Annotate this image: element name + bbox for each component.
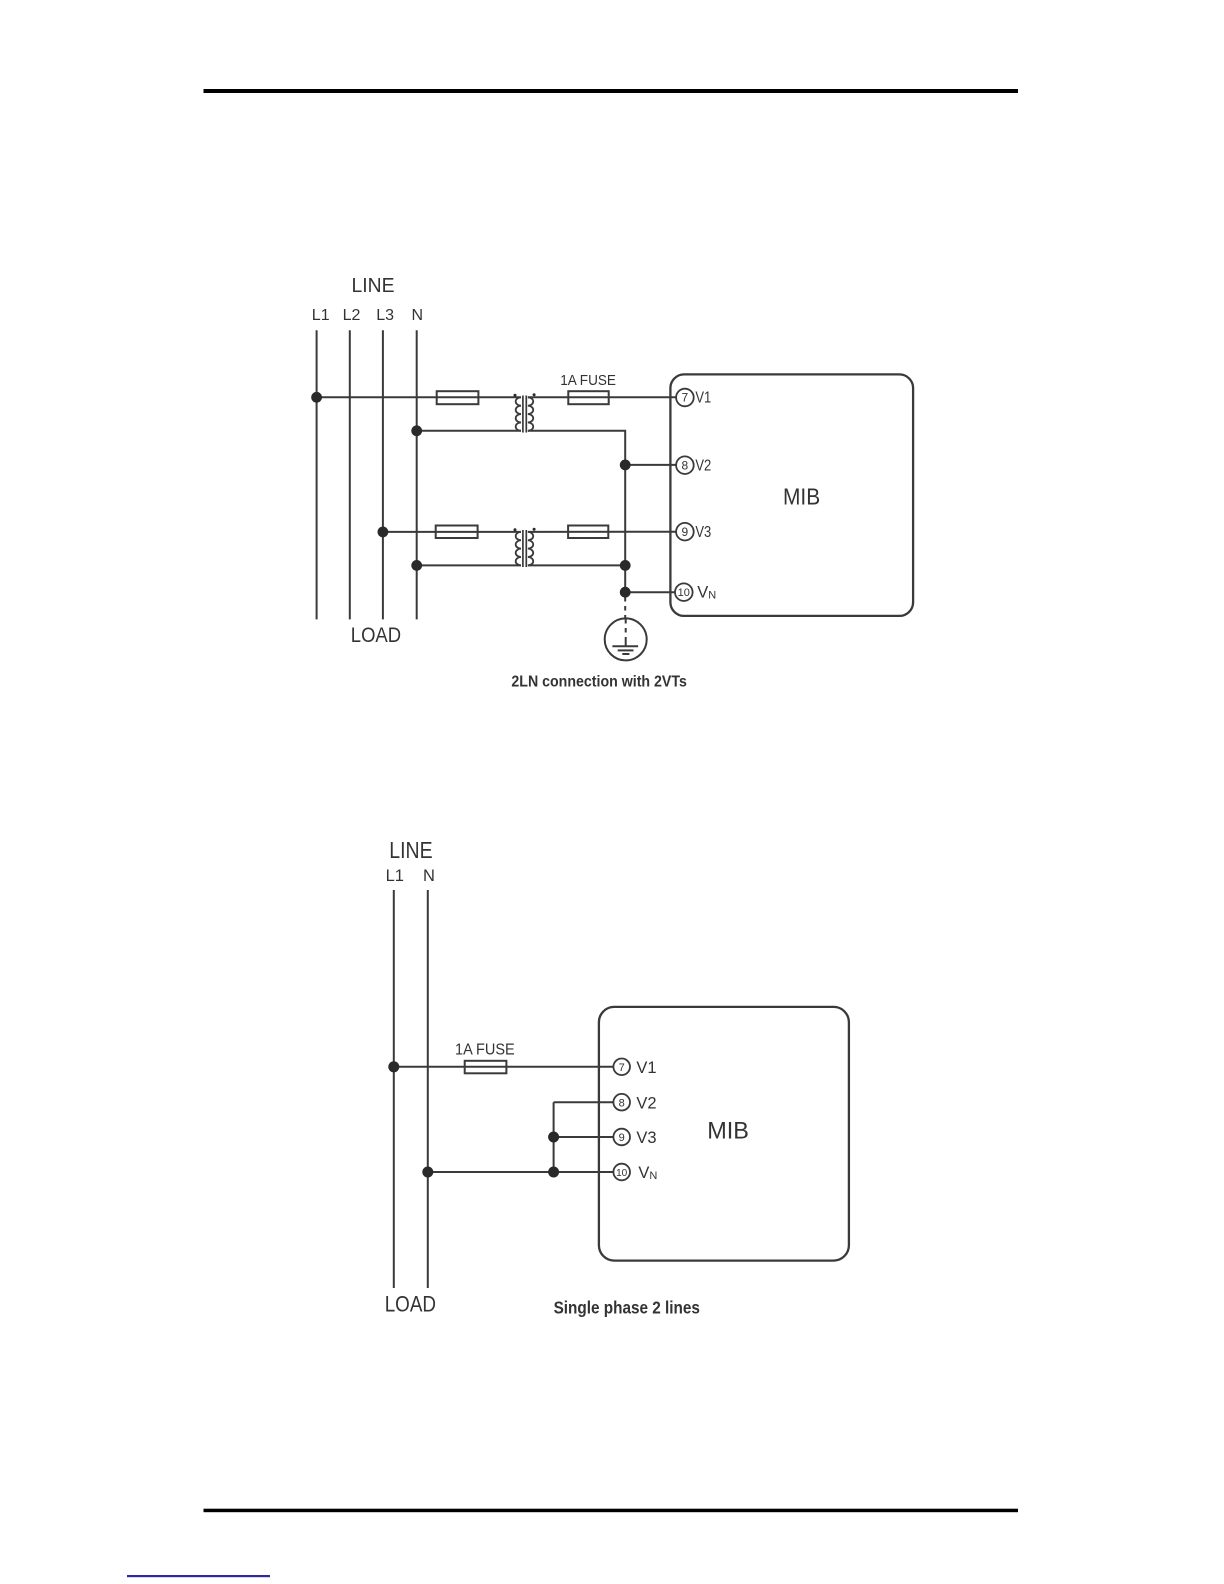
- junction dot bus/V2: [620, 460, 631, 471]
- earth bar 2: [618, 649, 634, 651]
- svg-text:V2: V2: [695, 457, 711, 474]
- svg-text:LOAD: LOAD: [351, 623, 401, 647]
- junction dot bus/VN: [620, 587, 631, 598]
- fuse F5 (1A FUSE): [465, 1061, 507, 1074]
- svg-text:7: 7: [682, 391, 689, 405]
- wire VT1 secondary bottom to bus: [528, 431, 625, 465]
- wire line L1: [316, 330, 318, 619]
- svg-text:MIB: MIB: [707, 1117, 749, 1144]
- svg-text:N: N: [412, 307, 424, 324]
- terminal 7 circle (diagram 2): [613, 1059, 630, 1076]
- wire VN (diagram 2): [428, 1171, 614, 1173]
- svg-text:V2: V2: [636, 1094, 656, 1112]
- terminal 7 circle: [676, 389, 694, 407]
- junction dot L1/V1: [311, 392, 322, 403]
- junction dot N/VT1: [411, 425, 422, 436]
- svg-text:V3: V3: [636, 1129, 656, 1147]
- MIB box U2: [599, 1007, 849, 1261]
- svg-text:L3: L3: [376, 307, 394, 324]
- wire V1 right segment: [528, 396, 676, 398]
- junction dot bus/V3 (diagram 2): [548, 1132, 559, 1143]
- fuse F2 (1A FUSE): [568, 391, 608, 404]
- header rule: [204, 89, 1019, 93]
- wire line L3: [382, 330, 384, 619]
- svg-text:N: N: [423, 867, 435, 885]
- fuse F1: [437, 391, 479, 404]
- wire N to VT2 primary bottom: [417, 564, 521, 566]
- polarity dot VT1 secondary: [533, 393, 536, 396]
- svg-text:MIB: MIB: [783, 483, 820, 509]
- svg-text:10: 10: [616, 1168, 628, 1179]
- earth bar 1: [612, 645, 638, 647]
- svg-text:1A FUSE: 1A FUSE: [560, 373, 616, 389]
- svg-text:V3: V3: [695, 524, 711, 541]
- wire V1 (diagram 2): [394, 1066, 614, 1068]
- svg-text:1A FUSE: 1A FUSE: [455, 1042, 515, 1059]
- earth circle E1: [605, 618, 647, 660]
- svg-text:8: 8: [619, 1097, 625, 1109]
- svg-text:7: 7: [619, 1062, 625, 1074]
- wire VN: [625, 591, 675, 593]
- svg-text:L1: L1: [312, 307, 330, 324]
- svg-text:2LN connection with 2VTs: 2LN connection with 2VTs: [511, 674, 687, 691]
- svg-text:L2: L2: [343, 307, 361, 324]
- svg-text:9: 9: [682, 525, 689, 539]
- transformer VT2 primary winding: [516, 532, 521, 566]
- fuse F4: [568, 526, 608, 539]
- junction dot N/VN (diagram 2): [422, 1167, 433, 1178]
- footer link underline: [127, 1575, 270, 1577]
- transformer VT1 core: [522, 396, 524, 433]
- svg-text:L1: L1: [386, 867, 404, 885]
- wire V2 (diagram 2): [554, 1101, 614, 1103]
- wire VT2 secondary bottom to bus: [528, 564, 625, 566]
- svg-text:LOAD: LOAD: [385, 1291, 436, 1316]
- junction dot bus/VN (diagram 2): [548, 1167, 559, 1178]
- wire bus vertical: [624, 465, 626, 592]
- transformer VT2 secondary winding: [528, 532, 533, 566]
- footer rule: [204, 1509, 1019, 1513]
- transformer VT1 primary winding: [516, 397, 521, 431]
- junction dot N/VT2: [411, 560, 422, 571]
- transformer VT2 core: [522, 530, 524, 567]
- wire N to VT1 primary bottom: [417, 430, 521, 432]
- svg-text:LINE: LINE: [389, 837, 432, 863]
- transformer VT1 secondary winding: [528, 397, 533, 431]
- terminal 10 circle: [675, 583, 693, 601]
- wire V3 (diagram 2): [554, 1136, 614, 1138]
- wire V3 right segment: [528, 531, 676, 533]
- terminal 8 circle (diagram 2): [613, 1094, 630, 1111]
- wire line L2: [349, 330, 351, 619]
- wire line L1 (diagram 2): [393, 890, 395, 1288]
- fuse F3: [436, 526, 478, 539]
- wire line N: [416, 330, 418, 619]
- wire line N (diagram 2): [427, 890, 429, 1288]
- earth dashed lead inside: [625, 619, 627, 638]
- junction dot L3/V3: [378, 527, 389, 538]
- svg-text:V1: V1: [695, 390, 711, 407]
- terminal 10 circle (diagram 2): [613, 1164, 630, 1181]
- terminal 9 circle: [676, 523, 694, 541]
- MIB box U1: [670, 374, 913, 616]
- polarity dot VT2 secondary: [533, 528, 536, 531]
- wire V3 left segment: [383, 531, 521, 533]
- polarity dot VT1 primary: [514, 394, 517, 397]
- terminal 8 circle: [676, 456, 694, 474]
- svg-text:10: 10: [678, 587, 690, 599]
- earth stem: [625, 638, 627, 647]
- terminal 9 circle (diagram 2): [613, 1129, 630, 1146]
- svg-text:8: 8: [682, 458, 689, 472]
- junction dot bus/VT2: [620, 560, 631, 571]
- wire V1 left segment: [317, 396, 521, 398]
- svg-text:Single phase 2 lines: Single phase 2 lines: [554, 1298, 701, 1318]
- svg-text:9: 9: [619, 1132, 625, 1144]
- svg-text:LINE: LINE: [352, 275, 395, 297]
- wire bus (diagram 2): [553, 1102, 555, 1172]
- earth bar 3: [622, 653, 629, 655]
- svg-text:V1: V1: [636, 1059, 656, 1077]
- junction dot L1/V1 (diagram 2): [388, 1061, 399, 1072]
- wire V2: [625, 464, 676, 466]
- polarity dot VT2 primary: [514, 528, 517, 531]
- dashed wire to earth: [624, 597, 626, 619]
